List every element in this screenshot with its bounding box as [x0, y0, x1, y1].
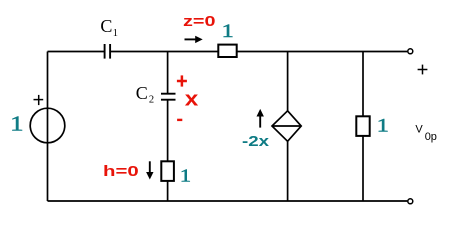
arrow h (down)	[149, 161, 151, 173]
wire right branch upper	[362, 52, 364, 117]
wire top: C1 right plate to top resistor	[110, 51, 219, 53]
label + (output)	[418, 65, 428, 75]
wire top: top resistor to output terminal	[237, 51, 408, 53]
svg-text:1: 1	[222, 20, 234, 42]
svg-text:h=0: h=0	[103, 162, 139, 179]
wire middle branch to bottom	[167, 181, 169, 201]
diamond crossbar	[272, 125, 301, 127]
arrow source (up)	[259, 115, 261, 127]
label + (red, C2 top)	[177, 75, 187, 86]
capacitor C2 plates	[161, 94, 176, 100]
svg-text:0p: 0p	[425, 131, 437, 143]
resistor R3 (right) box	[356, 116, 369, 136]
wire middle branch lower (C2 to R2)	[167, 100, 169, 162]
wire top: left node to C1 left plate	[48, 51, 105, 53]
label - (red, C2 bottom)	[177, 119, 182, 121]
wire diamond branch lower	[287, 141, 289, 201]
capacitor C1 plates	[105, 44, 111, 59]
terminal top (open circle)	[408, 49, 413, 54]
svg-text:1: 1	[113, 28, 118, 39]
wire left vertical	[47, 52, 49, 202]
resistor R2 (middle bottom) box	[161, 161, 174, 181]
wire diamond branch upper	[287, 52, 289, 111]
dependent source diamond	[272, 111, 301, 142]
wire right branch lower	[362, 136, 364, 201]
svg-text:-2x: -2x	[242, 133, 270, 149]
svg-text:V: V	[415, 124, 423, 136]
voltage source plus sign	[34, 95, 44, 105]
svg-text:z=0: z=0	[183, 12, 216, 29]
svg-text:2: 2	[149, 95, 154, 106]
wire bottom	[48, 200, 408, 202]
svg-text:1: 1	[10, 112, 24, 135]
svg-text:x: x	[185, 88, 199, 110]
voltage source V1 circle	[30, 108, 65, 143]
arrow z (right)	[185, 38, 197, 40]
resistor R1 (top) box	[218, 45, 236, 57]
svg-text:C: C	[100, 16, 112, 36]
svg-text:1: 1	[180, 167, 191, 186]
svg-text:1: 1	[377, 114, 389, 136]
svg-text:C: C	[136, 83, 148, 103]
terminal bottom (open circle)	[408, 199, 413, 204]
wire middle branch upper	[167, 52, 169, 94]
